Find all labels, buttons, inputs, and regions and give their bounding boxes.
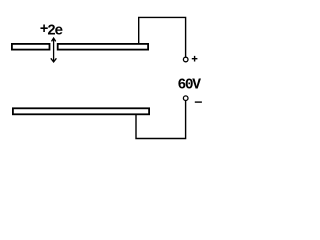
charge motion arrow (double-headed, through gap in upper plate) bbox=[51, 38, 57, 62]
polarity label + bbox=[192, 56, 198, 62]
svg-text:2e: 2e bbox=[47, 23, 62, 39]
wire: upper plate to + terminal (up, right, down) bbox=[139, 17, 186, 57]
charge value label +2e bbox=[40, 22, 63, 39]
wire: - terminal to lower plate (down, left, up) bbox=[136, 101, 186, 139]
polarity label - bbox=[195, 101, 202, 103]
capacitor C1 upper plate, right segment bbox=[58, 44, 148, 50]
+ terminal of 60V source (open circle) bbox=[183, 57, 188, 62]
svg-text:60V: 60V bbox=[178, 77, 202, 93]
- terminal of 60V source (open circle) bbox=[183, 96, 188, 101]
capacitor C1 lower plate bbox=[13, 108, 149, 114]
capacitor C1 upper plate, left segment bbox=[12, 44, 50, 50]
